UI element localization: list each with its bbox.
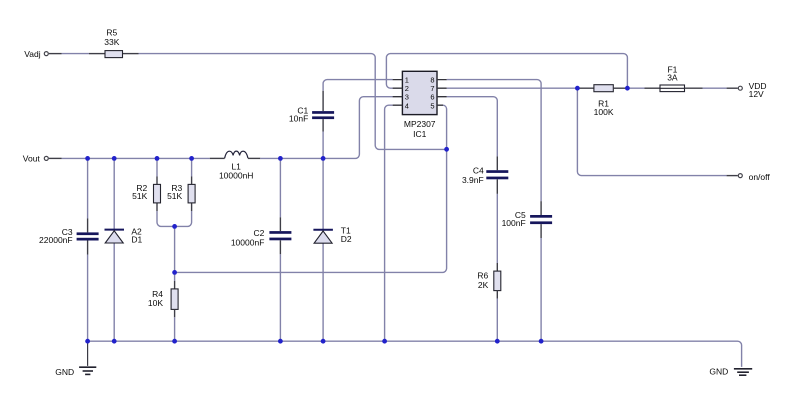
pin number 7 — [430, 84, 434, 93]
junction rail/D2 — [321, 339, 326, 344]
svg-text:51K: 51K — [132, 191, 147, 201]
wire COMP net: pin6 down through C4 — [447, 97, 498, 171]
wire Vadj net: R5 to FB junction (down right of C1, across to pin5 column) — [89, 54, 447, 150]
resistor R6 — [494, 271, 501, 291]
label T1 D2 — [341, 225, 352, 243]
junction R2/R3 bottoms — [172, 224, 177, 229]
capacitor C5 — [530, 215, 552, 224]
label C3 22000nF — [39, 227, 73, 245]
svg-text:3.9nF: 3.9nF — [462, 175, 484, 185]
pin number 3 — [405, 93, 409, 102]
label GND right — [709, 367, 728, 377]
junction rail/C5 — [539, 339, 544, 344]
terminal on/off — [738, 174, 742, 178]
junction SW/C2 — [278, 156, 283, 161]
svg-text:33K: 33K — [104, 37, 119, 47]
pin number 5 — [430, 101, 434, 110]
junction Vout/R3 — [189, 156, 194, 161]
pin number 4 — [405, 101, 409, 110]
pin number 1 — [405, 76, 409, 85]
capacitor C3 — [77, 232, 99, 240]
label F1 3A — [667, 64, 678, 82]
label C5 100nF — [502, 210, 526, 228]
resistor R3 — [188, 184, 195, 203]
wire BS net: pin8 across and down through C5 — [447, 80, 541, 215]
node label Vout — [23, 154, 41, 164]
wire C5 bottom to ground rail — [540, 224, 542, 341]
svg-text:on/off: on/off — [749, 172, 771, 182]
junction rail/C2 — [278, 339, 283, 344]
svg-text:100nF: 100nF — [502, 218, 526, 228]
junction rail/R4 — [172, 339, 177, 344]
svg-text:D2: D2 — [341, 234, 352, 244]
label C2 10000nF — [231, 228, 265, 247]
svg-text:MP2307: MP2307 — [404, 119, 436, 129]
capacitor C4 — [486, 170, 508, 179]
label GND left — [55, 367, 74, 377]
label R4 10K — [148, 289, 163, 308]
svg-text:10nF: 10nF — [289, 114, 308, 124]
svg-text:5: 5 — [430, 101, 434, 110]
label C1 10nF — [289, 105, 309, 123]
resistor R1 — [594, 85, 613, 92]
junction rail/pin4 — [382, 339, 387, 344]
wire EN net: pin2 up and across top to R1/F1 junction — [386, 54, 627, 89]
wire R4 to ground rail — [174, 309, 176, 341]
ground symbol right — [734, 369, 752, 375]
wire R2 top / R3 top from Vout — [157, 158, 192, 184]
resistor R4 — [171, 289, 178, 310]
pin number 6 — [430, 93, 434, 102]
junction FB/Vadj — [444, 147, 449, 152]
svg-text:Vout: Vout — [23, 154, 41, 164]
pin number 2 — [405, 84, 409, 93]
wire FB column between junctions — [174, 226, 176, 272]
IC pin stubs left — [393, 80, 403, 106]
resistor R5 — [105, 51, 123, 58]
wire Vout net: terminal to L1 — [49, 157, 225, 159]
ground symbol left — [79, 341, 96, 374]
wire on/off net: VIN junction down and right to terminal — [577, 88, 737, 175]
diode D1 — [105, 230, 125, 243]
label A2 D1 — [131, 227, 142, 245]
wire C3 branch from Vout — [87, 158, 89, 232]
label R6 2K — [477, 271, 488, 290]
svg-text:4: 4 — [405, 101, 409, 110]
wire C3 to ground rail — [87, 241, 89, 342]
junction EN/R1/F1 — [625, 86, 630, 91]
wire D1 branch from Vout to rail — [113, 158, 115, 341]
svg-text:R5: R5 — [106, 28, 117, 38]
capacitor C2 — [269, 231, 291, 240]
junction divider/R4/FB — [172, 270, 177, 275]
svg-text:51K: 51K — [167, 191, 182, 201]
junction Vout/D1 — [112, 156, 117, 161]
svg-text:10000nF: 10000nF — [231, 237, 265, 247]
label L1 10000nH — [219, 161, 254, 180]
wire Vadj net: terminal to R5 — [49, 53, 89, 55]
label R2 51K — [132, 183, 147, 201]
wire divider junction down to R4 — [174, 272, 176, 289]
svg-text:IC1: IC1 — [413, 129, 427, 139]
wire R6 to ground rail — [496, 291, 498, 342]
label R1 100K — [594, 99, 614, 117]
junction rail/D1 — [112, 339, 117, 344]
svg-text:Vadj: Vadj — [24, 49, 40, 59]
wire SW net: L1 to pin3 — [248, 97, 393, 159]
node label Vadj — [24, 49, 40, 59]
svg-text:3A: 3A — [667, 73, 678, 83]
wire pin4 down to ground rail — [385, 105, 393, 341]
wire VIN net: pin7 to R1 — [447, 87, 594, 89]
svg-text:2K: 2K — [478, 280, 489, 290]
junction rail/C3 — [85, 339, 90, 344]
wire ground rail — [88, 341, 742, 367]
junction dots Vout row — [85, 86, 630, 344]
junction VIN/R1 — [575, 86, 580, 91]
fuse F1 — [660, 85, 685, 92]
svg-text:C4: C4 — [473, 165, 484, 175]
IC U1 MP2307 — [402, 71, 437, 114]
svg-text:GND: GND — [55, 367, 74, 377]
terminal Vout — [44, 156, 48, 160]
wire pin1 to C1 top — [323, 80, 393, 112]
svg-text:10000nH: 10000nH — [219, 170, 254, 180]
label MP2307 IC1 — [404, 119, 436, 139]
svg-text:100K: 100K — [594, 107, 614, 117]
label R3 51K — [167, 183, 182, 201]
wire FB net: pin5 down, left to divider — [175, 105, 447, 272]
junction rail/R6 — [495, 339, 500, 344]
terminal VDD — [738, 86, 742, 90]
node label on/off — [749, 172, 771, 182]
svg-text:22000nF: 22000nF — [39, 235, 73, 245]
resistor R2 — [154, 184, 161, 203]
junction Vout/R2 — [155, 156, 160, 161]
label C4 3.9nF — [462, 165, 484, 185]
svg-text:12V: 12V — [749, 89, 764, 99]
svg-text:GND: GND — [709, 367, 728, 377]
wire EN junction to F1 — [627, 87, 660, 89]
wire R2 R3 bottoms U link — [157, 203, 192, 227]
junction SW/C1/D2 — [321, 156, 326, 161]
inductor L1 — [225, 151, 248, 158]
wire C4 to R6 — [496, 179, 498, 271]
diode D2 — [313, 230, 333, 243]
svg-text:D1: D1 — [131, 235, 142, 245]
wire C1 bottom to Vout net — [322, 119, 324, 158]
capacitor C1 — [312, 111, 334, 119]
wire C2 branch from Vout — [279, 158, 281, 231]
IC pin stubs right — [437, 80, 447, 106]
svg-text:10K: 10K — [148, 298, 163, 308]
pin number 8 — [430, 76, 434, 85]
terminal Vadj — [44, 52, 48, 56]
label R5 33K — [104, 28, 119, 48]
wire D2 branch from Vout to rail — [322, 158, 324, 341]
wire R1 to EN junction — [613, 87, 627, 89]
node label VDD 12V — [749, 81, 767, 99]
wire C2 to ground rail — [279, 240, 281, 341]
wire F1 to VDD terminal — [685, 87, 738, 89]
junction Vout/C3 — [85, 156, 90, 161]
